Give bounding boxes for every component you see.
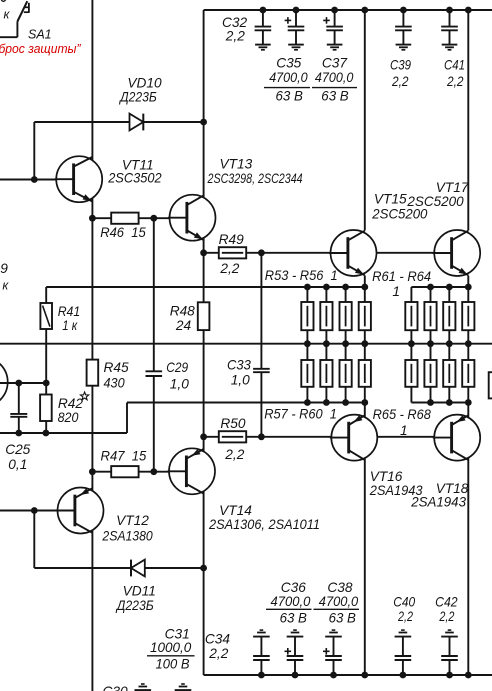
svg-text:2SC3502: 2SC3502 (107, 171, 162, 186)
svg-text:C41: C41 (444, 58, 465, 73)
svg-text:2,2: 2,2 (439, 609, 455, 624)
svg-text:1,0: 1,0 (231, 373, 250, 388)
svg-text:2SA1380: 2SA1380 (102, 529, 154, 544)
svg-text:VT15: VT15 (374, 191, 407, 206)
svg-text:C25: C25 (5, 442, 30, 457)
svg-text:2,2: 2,2 (225, 29, 245, 44)
svg-text:VT16: VT16 (370, 469, 403, 484)
svg-text:R42: R42 (58, 396, 83, 411)
svg-text:100 В: 100 В (156, 657, 190, 672)
svg-text:63 В: 63 В (276, 88, 303, 103)
svg-text:2,2: 2,2 (224, 447, 244, 462)
svg-text:2SC3298, 2SC2344: 2SC3298, 2SC2344 (207, 171, 303, 186)
svg-text:63 В: 63 В (321, 88, 348, 103)
svg-text:4700,0: 4700,0 (271, 594, 311, 609)
svg-text:VT14: VT14 (219, 503, 252, 518)
svg-text:SA1: SA1 (28, 27, 52, 41)
svg-text:0,1: 0,1 (8, 457, 27, 472)
svg-text:2SC5200: 2SC5200 (406, 194, 464, 209)
svg-text:C30: C30 (103, 684, 128, 691)
svg-text:C36: C36 (281, 580, 306, 595)
svg-text:Д223Б: Д223Б (118, 90, 157, 105)
svg-text:R65 - R68: R65 - R68 (373, 407, 432, 422)
svg-text:820: 820 (58, 410, 79, 425)
svg-text:R61 - R64: R61 - R64 (372, 269, 431, 284)
svg-text:2SA1306, 2SA1011: 2SA1306, 2SA1011 (208, 517, 320, 532)
svg-text:2,2: 2,2 (397, 609, 413, 624)
svg-text:R53 - R56 1: R53 - R56 1 (265, 268, 338, 283)
svg-text:63 В: 63 В (329, 611, 356, 626)
svg-text:C40: C40 (393, 595, 415, 610)
svg-text:430: 430 (104, 376, 125, 391)
svg-text:R48: R48 (170, 304, 195, 319)
svg-text:4700,0: 4700,0 (269, 70, 308, 85)
svg-text:R57 - R60 1: R57 - R60 1 (264, 406, 337, 421)
svg-text:R46 15: R46 15 (100, 225, 146, 240)
svg-text:R49: R49 (219, 232, 244, 247)
svg-text:R47 15: R47 15 (101, 448, 147, 463)
svg-text:9: 9 (0, 261, 8, 276)
svg-text:VT13: VT13 (220, 157, 253, 172)
svg-text:C38: C38 (327, 580, 352, 595)
svg-text:24: 24 (175, 318, 192, 333)
svg-text:1 к: 1 к (62, 318, 77, 333)
svg-text:2,2: 2,2 (208, 646, 228, 661)
svg-text:1: 1 (392, 284, 400, 299)
svg-text:1,0: 1,0 (170, 376, 189, 391)
svg-text:4700,0: 4700,0 (315, 70, 354, 85)
svg-text:2,2: 2,2 (219, 261, 239, 276)
svg-text:VD11: VD11 (123, 583, 156, 598)
svg-text:2SA1943: 2SA1943 (410, 495, 466, 510)
svg-text:VT12: VT12 (116, 513, 149, 528)
svg-text:C35: C35 (276, 55, 301, 70)
svg-text:R45: R45 (104, 360, 129, 375)
svg-text:1000,0: 1000,0 (150, 640, 192, 655)
svg-text:C39: C39 (390, 58, 411, 73)
svg-text:C34: C34 (205, 632, 230, 647)
svg-text:4700,0: 4700,0 (319, 594, 359, 609)
svg-text:C29: C29 (166, 360, 188, 375)
svg-text:VD10: VD10 (127, 76, 162, 91)
svg-text:C42: C42 (435, 595, 458, 610)
svg-text:Д223Б: Д223Б (115, 598, 154, 613)
svg-text:2,2: 2,2 (446, 74, 464, 89)
svg-text:C33: C33 (227, 357, 251, 372)
svg-text:63 В: 63 В (280, 611, 307, 626)
svg-text:2,2: 2,2 (391, 74, 409, 89)
svg-text:VT17: VT17 (436, 180, 470, 195)
svg-text:R41: R41 (58, 304, 80, 319)
svg-text:C37: C37 (322, 55, 348, 70)
svg-text:брос защиты”: брос защиты” (0, 41, 81, 56)
svg-text:R50: R50 (220, 416, 245, 431)
svg-text:1: 1 (400, 423, 408, 438)
